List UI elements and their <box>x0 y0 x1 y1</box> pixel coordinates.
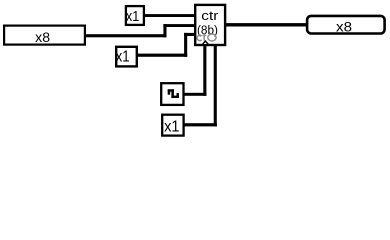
constant x1 (middle) <box>116 47 137 67</box>
svg-text:x1: x1 <box>164 119 179 136</box>
wire W1 from constant x1 (top) to counter left pin 1 <box>143 14 197 17</box>
svg-text:x1: x1 <box>126 8 139 25</box>
wire W3 from constant x1 (middle) to counter left pin 3 (step up) <box>136 33 196 57</box>
constant x1 (top) <box>126 6 144 25</box>
svg-text:x8: x8 <box>336 19 352 35</box>
constant x1 (bottom) <box>162 115 183 136</box>
terminal x8 input (left rectangle) <box>4 26 85 45</box>
terminal x8 output (right rounded rectangle) <box>307 16 385 35</box>
counter block ctr (8b) ct0 <box>195 5 225 45</box>
pulse generator (square-wave icon box) <box>161 83 183 105</box>
wire W2 from terminal x8 input to counter left pin 2 (step up) <box>84 24 196 37</box>
clock edge triangle on counter bottom border <box>202 40 210 45</box>
wire W5 from constant x1 (bottom) to counter bottom pin <box>183 44 217 126</box>
svg-text:x1: x1 <box>116 49 130 66</box>
wire W6 counter output to terminal x8 output <box>224 23 307 26</box>
svg-text:x8: x8 <box>35 30 50 45</box>
svg-text:ctr: ctr <box>201 9 218 23</box>
wire W4 from pulse generator to counter bottom clock pin <box>183 44 206 96</box>
